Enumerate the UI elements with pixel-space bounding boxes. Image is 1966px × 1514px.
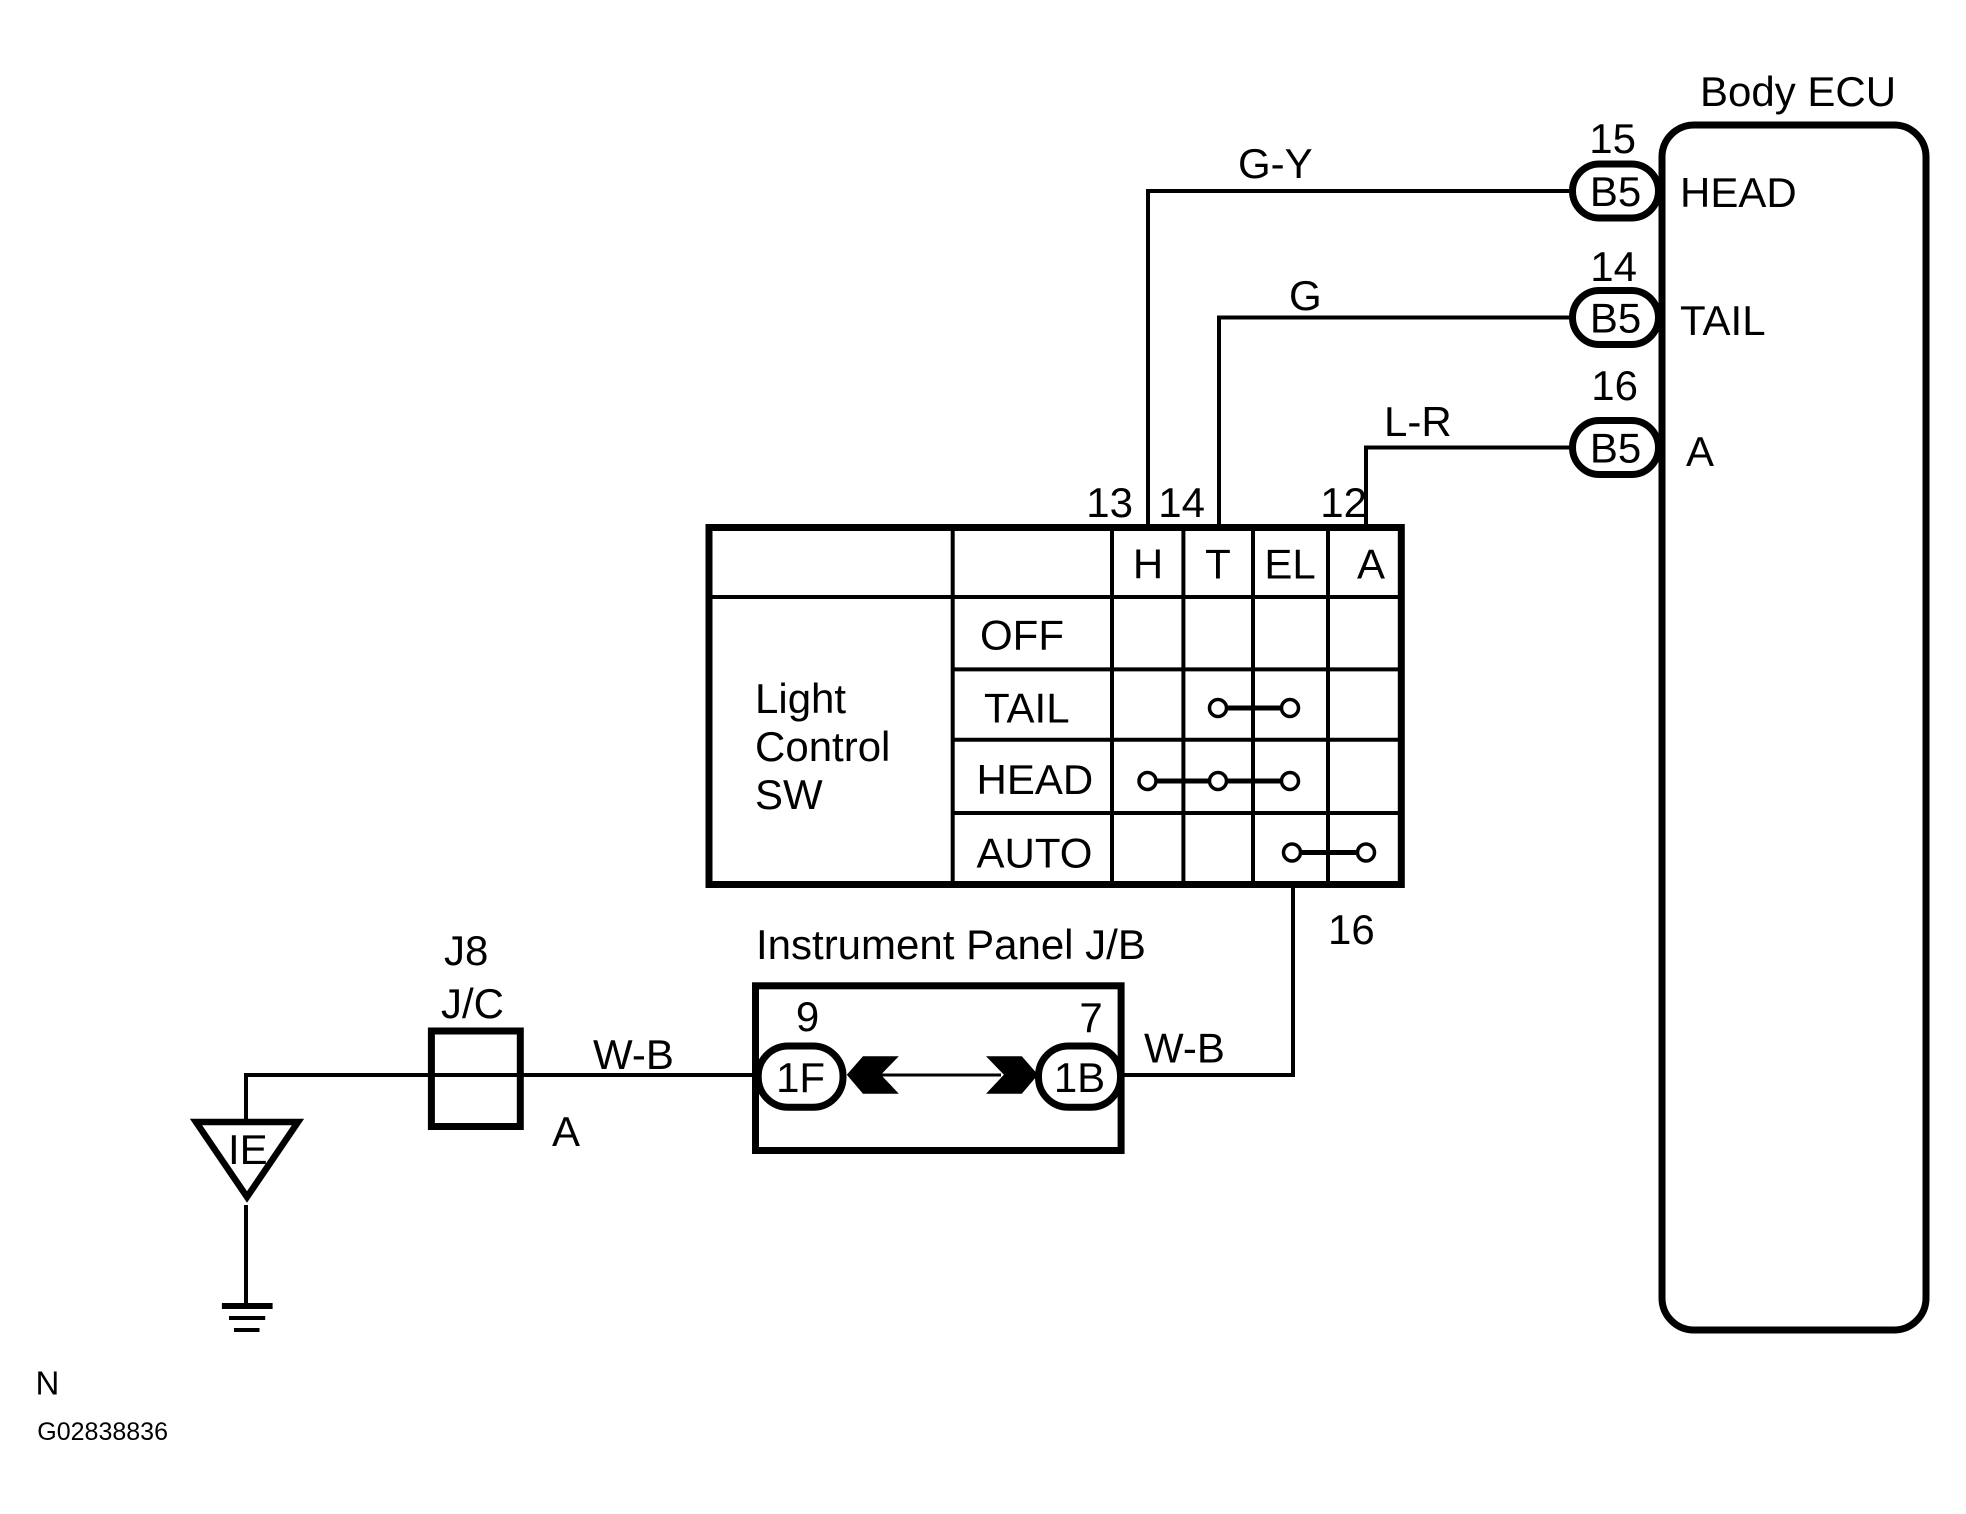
junction arrow line inside J/B bbox=[879, 1074, 1001, 1077]
table vertical divider 1 bbox=[951, 528, 955, 885]
svg-text:W-B: W-B bbox=[1144, 1025, 1225, 1072]
table horizontal divider under header bbox=[709, 595, 1401, 599]
svg-text:14: 14 bbox=[1590, 243, 1637, 290]
svg-text:9: 9 bbox=[796, 993, 819, 1040]
table horizontal divider OFF|TAIL bbox=[953, 667, 1402, 671]
svg-text:J/C: J/C bbox=[441, 980, 504, 1027]
Body ECU box bbox=[1662, 125, 1926, 1330]
svg-text:T: T bbox=[1205, 541, 1231, 588]
svg-text:7: 7 bbox=[1079, 994, 1102, 1041]
junction arrowhead right bbox=[986, 1056, 1038, 1094]
table horizontal divider TAIL|HEAD bbox=[953, 738, 1402, 742]
table horizontal divider HEAD|AUTO bbox=[953, 811, 1402, 815]
svg-text:16: 16 bbox=[1591, 362, 1638, 409]
table vertical divider 2 bbox=[1110, 528, 1114, 885]
svg-text:L-R: L-R bbox=[1384, 398, 1452, 445]
svg-text:TAIL: TAIL bbox=[984, 685, 1070, 732]
switch contact TAIL row (T-EL) bbox=[1210, 700, 1299, 717]
connector oval 1F bbox=[758, 1046, 843, 1107]
svg-text:G: G bbox=[1289, 272, 1322, 319]
junction connector J8 box bbox=[431, 1031, 520, 1127]
wire G (switch pin 14 to Body ECU B5 pin 14) bbox=[1219, 318, 1569, 531]
wire W-B (IE ground through J8 J/C to J/B 1F) bbox=[246, 1075, 754, 1125]
switch contact AUTO row (EL-A) bbox=[1284, 844, 1375, 861]
ground symbol bbox=[222, 1306, 273, 1330]
Instrument Panel J/B box bbox=[756, 986, 1122, 1151]
svg-text:A: A bbox=[1357, 541, 1385, 588]
svg-text:14: 14 bbox=[1158, 479, 1205, 526]
svg-text:HEAD: HEAD bbox=[977, 756, 1094, 803]
svg-text:A: A bbox=[1686, 428, 1714, 475]
connector oval B5 (TAIL pin 14) bbox=[1573, 291, 1659, 345]
svg-text:A: A bbox=[552, 1108, 580, 1155]
label Light Control SW bbox=[755, 675, 890, 818]
svg-text:G02838836: G02838836 bbox=[37, 1418, 168, 1446]
table vertical divider EL|A bbox=[1326, 528, 1330, 885]
svg-text:Light: Light bbox=[755, 675, 846, 722]
svg-text:IE: IE bbox=[228, 1126, 268, 1173]
svg-text:1F: 1F bbox=[776, 1054, 825, 1101]
wire (IE triangle to ground) bbox=[244, 1205, 248, 1304]
svg-text:B5: B5 bbox=[1590, 295, 1641, 342]
Light Control SW table outer box bbox=[709, 528, 1401, 885]
junction arrowhead left bbox=[847, 1056, 899, 1094]
svg-text:SW: SW bbox=[755, 771, 823, 818]
wire W-B (switch pin 16 down to Instrument Panel J/B 1B) bbox=[1124, 882, 1293, 1075]
svg-text:OFF: OFF bbox=[980, 612, 1064, 659]
svg-text:EL: EL bbox=[1264, 541, 1315, 588]
svg-text:HEAD: HEAD bbox=[1680, 169, 1797, 216]
svg-text:W-B: W-B bbox=[593, 1031, 674, 1078]
svg-text:16: 16 bbox=[1328, 906, 1375, 953]
connector oval 1B bbox=[1039, 1046, 1121, 1107]
wire L-R (switch pin 12 to Body ECU B5 pin 16) bbox=[1366, 448, 1569, 531]
svg-text:12: 12 bbox=[1320, 479, 1367, 526]
svg-text:N: N bbox=[36, 1365, 60, 1402]
wire G-Y (switch pin 13 to Body ECU B5 pin 15) bbox=[1148, 191, 1569, 530]
svg-text:J8: J8 bbox=[444, 927, 488, 974]
connector oval B5 (HEAD pin 15) bbox=[1573, 164, 1659, 218]
switch contact HEAD row (H-T-EL) bbox=[1139, 773, 1299, 790]
svg-text:Body ECU: Body ECU bbox=[1700, 68, 1896, 115]
svg-text:B5: B5 bbox=[1590, 425, 1641, 472]
svg-text:1B: 1B bbox=[1054, 1054, 1105, 1101]
connector oval B5 (A pin 16) bbox=[1573, 421, 1659, 475]
svg-text:13: 13 bbox=[1086, 479, 1133, 526]
svg-text:B5: B5 bbox=[1590, 168, 1641, 215]
svg-text:Instrument Panel J/B: Instrument Panel J/B bbox=[756, 921, 1146, 968]
ground connector triangle IE bbox=[196, 1122, 298, 1197]
svg-text:G-Y: G-Y bbox=[1238, 140, 1313, 187]
svg-text:Control: Control bbox=[755, 723, 890, 770]
svg-text:TAIL: TAIL bbox=[1680, 297, 1766, 344]
svg-text:H: H bbox=[1133, 541, 1163, 588]
table vertical divider H|T bbox=[1181, 528, 1185, 885]
table vertical divider T|EL bbox=[1251, 528, 1255, 885]
svg-text:AUTO: AUTO bbox=[977, 829, 1093, 876]
svg-text:15: 15 bbox=[1589, 115, 1636, 162]
